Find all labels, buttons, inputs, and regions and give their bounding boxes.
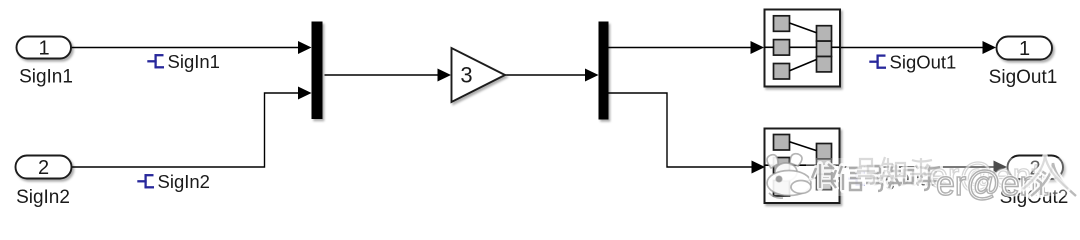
selector block U2 — [765, 129, 840, 204]
arrowhead at Out2 — [994, 161, 1008, 174]
outport block Out2 — [1008, 156, 1064, 180]
selector U1 left square 3 — [774, 64, 790, 80]
arrowhead at Mux input 1 — [298, 41, 312, 54]
selector U2 link lines — [765, 142, 840, 188]
mux block — [312, 22, 323, 120]
watermark text strokes (CJK-like) — [812, 164, 942, 191]
signal tag SigOut2 icon — [848, 172, 865, 186]
selector U2 left square 3 — [774, 181, 790, 197]
svg-text:2: 2 — [38, 157, 49, 179]
wire from In2 to Mux (with corner) — [72, 93, 299, 167]
wire from Demux out2 to Selector2 (two corners) — [609, 93, 753, 167]
demux block — [599, 22, 609, 120]
wire from Mux to Gain — [325, 74, 439, 76]
watermark — [767, 154, 1080, 203]
outport block Out1 — [997, 37, 1053, 60]
selector U1 left square 1 — [774, 16, 790, 31]
watermark char ren white underlay — [1031, 163, 1076, 196]
selector U2 right column cells — [817, 144, 832, 190]
char hao — [865, 166, 883, 191]
signal tag SigOut1 icon — [869, 55, 886, 69]
selector U1 right column cells — [817, 26, 832, 72]
watermark logo — [767, 154, 811, 198]
selector U1 link lines — [765, 23, 841, 71]
arrowhead at Demux input — [585, 69, 599, 82]
svg-text:SigIn2: SigIn2 — [16, 187, 70, 208]
watermark char ren outline — [1031, 163, 1076, 196]
wire from Selector1 to Out1 — [841, 47, 984, 49]
inport block In2 — [16, 156, 72, 179]
watermark CJK strokes white underlay — [812, 164, 942, 191]
arrowhead at Gain input — [438, 69, 452, 82]
arrowhead at Selector1 input — [751, 41, 765, 54]
svg-text:1: 1 — [1019, 38, 1030, 60]
watermark veil band — [806, 158, 1080, 196]
svg-text:SigIn2: SigIn2 — [158, 171, 210, 192]
signal tag SigIn2 icon — [137, 174, 154, 188]
char hu — [918, 165, 942, 190]
arrowhead at Selector2 input — [752, 161, 766, 174]
svg-text:SigOut1: SigOut1 — [890, 51, 957, 72]
gain block (triangle) — [452, 48, 506, 102]
svg-text:1: 1 — [38, 38, 49, 60]
watermark char ren ghost — [1023, 156, 1068, 189]
arrowhead at Mux input 2 — [298, 87, 312, 100]
watermark CJK ghost copy — [857, 157, 934, 184]
svg-text:SigOut1: SigOut1 — [989, 67, 1058, 88]
char xin — [839, 166, 862, 190]
selector U1 left square 2 — [774, 40, 790, 56]
wire from Gain to Demux — [505, 74, 586, 76]
inport block In1 — [17, 37, 72, 59]
char zhi — [888, 164, 913, 188]
arrowhead at Out1 — [983, 41, 997, 54]
char wei — [812, 164, 836, 188]
selector block U1 — [765, 10, 841, 87]
selector U2 left square 1 — [774, 135, 790, 151]
wire from In1 to Mux — [71, 47, 299, 49]
selector U2 left square 2 — [774, 158, 790, 174]
svg-text:SigIn1: SigIn1 — [19, 67, 73, 88]
svg-text:3: 3 — [460, 63, 472, 88]
wire from Selector2 to Out2 — [840, 166, 995, 168]
signal tag SigIn1 icon — [147, 54, 164, 68]
wire from Demux out1 to Selector1 — [609, 47, 752, 49]
svg-text:SigIn1: SigIn1 — [168, 51, 220, 72]
